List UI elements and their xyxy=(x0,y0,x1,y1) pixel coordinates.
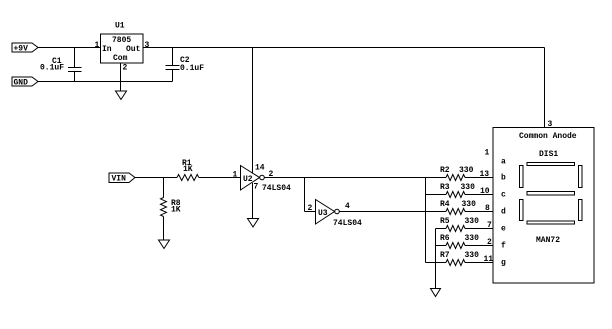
svg-text:1: 1 xyxy=(233,171,238,180)
svg-text:2: 2 xyxy=(308,204,313,213)
svg-text:330: 330 xyxy=(459,166,474,175)
svg-text:MAN72: MAN72 xyxy=(536,236,560,245)
svg-text:1K: 1K xyxy=(171,206,181,215)
segment a bar xyxy=(527,163,575,166)
connector VIN xyxy=(109,173,135,184)
svg-text:d: d xyxy=(501,208,506,217)
svg-text:7: 7 xyxy=(254,183,259,192)
svg-text:g: g xyxy=(501,259,506,268)
svg-text:R4: R4 xyxy=(440,200,450,209)
ground under U1 xyxy=(116,91,127,100)
svg-text:GND: GND xyxy=(14,79,29,88)
svg-text:DIS1: DIS1 xyxy=(539,150,558,159)
resistor R4 330 xyxy=(440,200,493,215)
svg-text:8: 8 xyxy=(485,204,490,213)
svg-text:VIN: VIN xyxy=(112,175,127,184)
segment b bar xyxy=(579,166,583,188)
resistor R3 330 xyxy=(440,183,493,198)
svg-text:330: 330 xyxy=(461,183,476,192)
svg-text:1: 1 xyxy=(485,149,490,158)
svg-text:330: 330 xyxy=(462,200,477,209)
capacitor C1 xyxy=(40,48,82,82)
wire GND rail xyxy=(38,81,173,83)
svg-text:R7: R7 xyxy=(440,251,450,260)
ground under U2 xyxy=(248,219,259,228)
wire VIN to R1 xyxy=(135,177,177,179)
segment f bar xyxy=(520,166,524,188)
svg-text:74LS04: 74LS04 xyxy=(333,219,362,228)
svg-text:b: b xyxy=(501,174,506,183)
segment e bar xyxy=(520,200,524,221)
svg-text:4: 4 xyxy=(345,202,350,211)
wire branch to R7 xyxy=(426,262,447,264)
wire branch to R6 xyxy=(436,245,447,247)
svg-text:0.1uF: 0.1uF xyxy=(40,64,64,73)
wire U2 output to R2 xyxy=(264,177,446,179)
wire vertical bus B to ground xyxy=(435,229,437,290)
svg-text:1: 1 xyxy=(95,41,100,50)
resistor R6 330 xyxy=(440,234,493,249)
svg-text:330: 330 xyxy=(465,251,480,260)
display DIS1 MAN72 common anode xyxy=(485,128,595,284)
svg-text:f: f xyxy=(501,242,506,251)
ground under R8 xyxy=(159,240,170,249)
wire U3 output to R4 xyxy=(339,211,446,213)
svg-text:Com: Com xyxy=(113,54,128,63)
svg-text:1K: 1K xyxy=(183,165,193,174)
wire U1 pin2 to ground xyxy=(120,63,122,91)
svg-text:3: 3 xyxy=(145,41,150,50)
svg-text:330: 330 xyxy=(465,234,480,243)
wire display anode drop pin 3 xyxy=(545,48,553,130)
resistor R2 330 xyxy=(440,166,493,181)
regulator U1 7805 xyxy=(95,22,150,73)
segment c bar xyxy=(579,200,583,221)
svg-text:Out: Out xyxy=(126,45,141,54)
svg-text:11: 11 xyxy=(484,255,494,264)
wire branch to R5 xyxy=(436,228,447,230)
connector GND xyxy=(12,77,38,88)
svg-text:+9V: +9V xyxy=(14,45,29,54)
wire R8 to ground xyxy=(163,217,165,241)
segment g bar xyxy=(527,192,575,196)
connector +9V xyxy=(12,43,38,54)
svg-text:e: e xyxy=(501,225,506,234)
svg-text:U1: U1 xyxy=(115,22,125,31)
wire branch to R3 xyxy=(426,194,447,196)
wire U2 power drop pin 14 xyxy=(252,48,254,174)
svg-text:R5: R5 xyxy=(440,217,450,226)
svg-text:R3: R3 xyxy=(440,183,450,192)
inverter U3 74LS04 xyxy=(316,200,363,229)
resistor R8 1K xyxy=(161,198,181,217)
svg-text:U3: U3 xyxy=(318,209,328,218)
wire U2 ground stub xyxy=(252,183,254,219)
resistor R7 330 xyxy=(440,251,493,266)
ground under bus B xyxy=(431,289,441,297)
wire output rail xyxy=(143,47,545,49)
svg-text:In: In xyxy=(102,45,112,54)
inverter U2 74LS04 xyxy=(241,164,292,194)
svg-text:10: 10 xyxy=(480,187,490,196)
wire +9V to U1 in xyxy=(38,47,101,49)
wire vertical bus A from U2 output xyxy=(425,178,427,263)
svg-text:2: 2 xyxy=(123,64,128,73)
svg-text:Common Anode: Common Anode xyxy=(519,132,577,141)
resistor R1 1K xyxy=(177,159,199,181)
capacitor C2 xyxy=(166,48,205,82)
svg-text:13: 13 xyxy=(480,170,490,179)
wire U2 output down to U3 input pin 2 xyxy=(305,178,316,214)
svg-text:74LS04: 74LS04 xyxy=(262,184,291,193)
svg-text:a: a xyxy=(501,158,506,167)
svg-text:0.1uF: 0.1uF xyxy=(180,64,204,73)
svg-text:14: 14 xyxy=(255,164,265,173)
svg-text:U2: U2 xyxy=(243,175,253,184)
svg-text:330: 330 xyxy=(465,217,480,226)
wire R1 to U2 input pin 1 xyxy=(199,171,240,180)
svg-text:c: c xyxy=(501,191,506,200)
svg-text:7805: 7805 xyxy=(112,36,131,45)
svg-text:2: 2 xyxy=(487,238,492,247)
segment d bar xyxy=(527,221,575,224)
svg-text:R2: R2 xyxy=(440,166,450,175)
svg-text:R6: R6 xyxy=(440,234,450,243)
resistor R5 330 xyxy=(440,217,493,232)
wire junction down to R8 xyxy=(163,178,165,198)
svg-text:7: 7 xyxy=(487,221,492,230)
